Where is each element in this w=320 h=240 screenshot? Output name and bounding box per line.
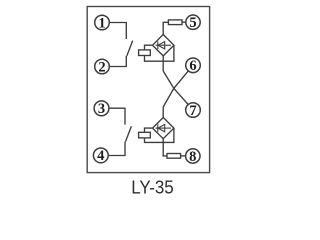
terminal 6 xyxy=(186,58,201,73)
svg-text:2: 2 xyxy=(98,59,105,75)
resistor R2 xyxy=(167,154,181,159)
wire coil K2 bottom to bridge U2 right vertex xyxy=(145,128,174,142)
terminal 1 xyxy=(95,15,110,30)
coil K1 xyxy=(139,50,151,56)
rectifier bridge U1 xyxy=(153,35,174,56)
wire resistor R1 to terminal 5 xyxy=(182,21,186,23)
switch SW1 blade xyxy=(127,41,133,56)
terminal 8 xyxy=(186,149,200,163)
svg-text:4: 4 xyxy=(97,148,104,164)
terminal 5 xyxy=(186,15,200,29)
wire diagonal U2 to terminal 6 xyxy=(163,71,188,107)
wire switch SW1 to terminal 2 xyxy=(109,56,126,67)
svg-text:6: 6 xyxy=(189,58,196,74)
diode symbol inside U2 xyxy=(156,124,172,132)
svg-text:7: 7 xyxy=(189,103,196,119)
wire coil K1 bottom to bridge U1 right vertex xyxy=(145,45,174,61)
wire bridge U1 top vertex to resistor R1 xyxy=(163,22,168,34)
diode symbol inside U1 xyxy=(156,41,172,49)
terminal 4 xyxy=(93,148,108,163)
wire terminal1 to switch SW1 xyxy=(109,23,126,40)
svg-text:5: 5 xyxy=(189,15,196,31)
wire bridge U1 left vertex to coil K1 xyxy=(145,45,153,50)
svg-text:LY-35: LY-35 xyxy=(131,176,174,197)
resistor R1 xyxy=(168,20,182,25)
svg-text:3: 3 xyxy=(98,101,105,117)
wire resistor R2 to terminal 8 xyxy=(181,155,186,157)
switch SW2 blade xyxy=(126,126,132,141)
wire terminal3 to switch SW2 xyxy=(109,108,125,124)
wire bridge U2 left vertex to coil K2 xyxy=(145,128,153,132)
terminal 2 xyxy=(95,59,110,74)
wire bridge U2 top vertex up xyxy=(162,107,164,118)
coil K2 xyxy=(139,132,151,138)
wire diagonal U1 to terminal 7 xyxy=(163,71,188,105)
terminal 7 xyxy=(186,103,201,118)
relay case outline xyxy=(87,7,209,173)
rectifier bridge U2 xyxy=(153,118,174,139)
wire bridge U2 bottom vertex to resistor R2 xyxy=(163,139,167,156)
wire bridge U1 bottom vertex down xyxy=(162,56,164,71)
svg-text:8: 8 xyxy=(189,149,196,165)
wire switch SW2 to terminal 4 xyxy=(108,142,125,156)
svg-text:1: 1 xyxy=(98,15,105,31)
terminal 3 xyxy=(94,101,109,116)
